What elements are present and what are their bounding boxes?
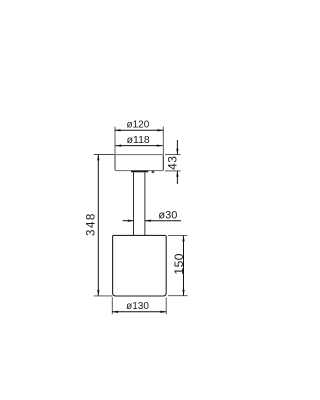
svg-text:ø30: ø30 <box>158 210 177 222</box>
svg-text:ø130: ø130 <box>126 301 149 312</box>
svg-text:ø118: ø118 <box>127 134 150 146</box>
svg-text:348: 348 <box>86 212 98 236</box>
svg-text:ø120: ø120 <box>127 120 150 131</box>
svg-text:150: 150 <box>172 253 186 275</box>
svg-text:43: 43 <box>165 156 179 170</box>
